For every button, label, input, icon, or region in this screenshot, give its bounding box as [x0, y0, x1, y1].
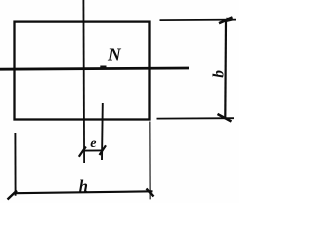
- svg-text:e: e: [90, 136, 96, 151]
- svg-text:b: b: [210, 70, 227, 78]
- svg-text:h: h: [79, 177, 88, 196]
- svg-text:N: N: [107, 45, 122, 65]
